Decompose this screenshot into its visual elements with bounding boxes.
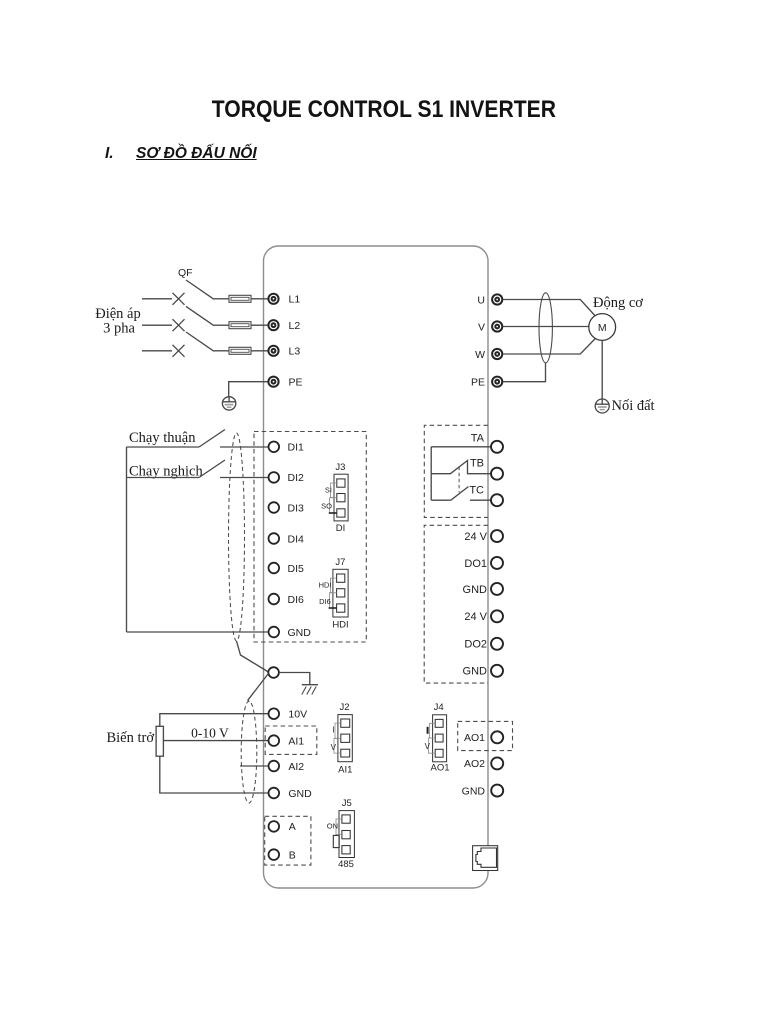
- AI cable shield ellipse dashed: [241, 701, 257, 803]
- relay mechanical link dashed: [458, 467, 460, 493]
- relay dashed box: [424, 425, 488, 517]
- wire blade to fuse L3: [214, 350, 229, 352]
- shield terminal: [268, 667, 279, 678]
- terminal DI3: [269, 502, 280, 513]
- svg-text:QF: QF: [178, 267, 193, 279]
- fuse F1: [229, 295, 251, 302]
- terminal AI1: [269, 735, 280, 746]
- svg-text:AI2: AI2: [288, 761, 304, 773]
- earth symbol left PE: [222, 397, 235, 410]
- wire U to motor: [503, 300, 595, 317]
- svg-text:J3: J3: [335, 462, 345, 473]
- svg-text:PE: PE: [289, 377, 303, 389]
- chassis ground symbol: [302, 685, 318, 695]
- svg-text:AO2: AO2: [464, 758, 485, 770]
- svg-text:AI1: AI1: [338, 765, 352, 776]
- svg-text:24 V: 24 V: [464, 611, 487, 623]
- svg-text:Động cơ: Động cơ: [593, 295, 643, 311]
- terminal PE right: [492, 377, 502, 387]
- wire to DI1: [220, 446, 269, 448]
- svg-text:DI6: DI6: [288, 594, 305, 606]
- breaker pole X L3: [173, 345, 185, 357]
- breaker pole X L2: [173, 319, 185, 331]
- digital output dashed box: [424, 525, 488, 683]
- wire pot top to 10V: [160, 714, 269, 727]
- svg-text:Chạy thuận: Chạy thuận: [129, 430, 196, 446]
- wire motor to earth: [601, 340, 603, 399]
- svg-text:DI: DI: [336, 523, 346, 534]
- svg-text:J2: J2: [339, 702, 349, 713]
- terminal V: [492, 321, 502, 331]
- svg-text:GND: GND: [288, 627, 312, 639]
- svg-text:485: 485: [338, 859, 354, 870]
- svg-text:J4: J4: [434, 702, 444, 713]
- jumper J4 label I: [427, 727, 429, 734]
- svg-text:DI1: DI1: [288, 442, 305, 454]
- shield drain wire DI cable: [237, 641, 269, 672]
- motor M: [589, 314, 616, 341]
- terminal 24V upper: [491, 530, 503, 542]
- left common bus wire: [126, 447, 128, 632]
- terminal PE left: [268, 377, 278, 387]
- terminal GND ao: [491, 785, 503, 797]
- wire PE to cable shield: [503, 363, 546, 382]
- wire shield terminal to chassis ground: [279, 673, 310, 685]
- wire fuse to L2 terminal: [251, 324, 268, 326]
- svg-text:HDI: HDI: [319, 581, 332, 590]
- terminal L1: [268, 294, 278, 304]
- terminal GND digital: [269, 627, 280, 638]
- svg-text:24 V: 24 V: [464, 531, 487, 543]
- svg-text:DI4: DI4: [288, 533, 305, 545]
- title: [53, 95, 715, 124]
- svg-text:PE: PE: [471, 377, 485, 389]
- svg-text:DI6: DI6: [319, 597, 331, 606]
- wire V to motor: [503, 326, 589, 328]
- terminal DO1: [491, 557, 503, 569]
- svg-text:L3: L3: [289, 346, 301, 358]
- svg-text:L1: L1: [289, 294, 301, 306]
- svg-text:GND: GND: [288, 788, 312, 800]
- terminal DI4: [269, 533, 280, 544]
- jumper J7 block: [329, 569, 349, 617]
- svg-text:J5: J5: [342, 798, 352, 809]
- shield wire to AI cable: [248, 674, 268, 703]
- wire blade to fuse L1: [214, 298, 229, 300]
- terminal L3: [268, 346, 278, 356]
- phase L3 input wire: [142, 350, 172, 352]
- svg-text:TA: TA: [471, 433, 485, 445]
- terminal B: [269, 849, 280, 860]
- DI dashed group box: [254, 432, 366, 643]
- relay TC contact: [431, 499, 451, 501]
- potentiometer body: [156, 726, 163, 756]
- terminal DO2: [491, 638, 503, 650]
- RJ45 connector: [473, 846, 498, 871]
- svg-text:DI5: DI5: [288, 563, 305, 575]
- DI cable shield ellipse dashed: [229, 433, 245, 641]
- terminal GND analog: [269, 788, 280, 799]
- svg-text:DO2: DO2: [464, 639, 487, 651]
- terminal DI1: [269, 442, 280, 453]
- terminal AI2: [269, 761, 280, 772]
- jumper J3 block: [329, 474, 348, 521]
- motor cable shield ellipse: [539, 293, 552, 363]
- section heading text: [136, 145, 257, 163]
- svg-text:L2: L2: [289, 320, 301, 332]
- terminal TA: [491, 441, 503, 453]
- wire pot wiper to AI1: [163, 740, 268, 742]
- terminal GND do1: [491, 583, 503, 595]
- svg-text:J7: J7: [335, 557, 345, 568]
- AI1 dashed box: [265, 726, 317, 754]
- phase L1 input wire: [142, 298, 172, 300]
- wire fuse to L3 terminal: [251, 350, 268, 352]
- DI2 switch blade: [199, 460, 225, 478]
- svg-text:M: M: [598, 322, 607, 334]
- breaker blade L1: [186, 280, 214, 299]
- terminal 24V lower: [491, 610, 503, 622]
- svg-text:TC: TC: [469, 485, 484, 497]
- wire to DI2: [220, 477, 269, 479]
- inverter main box: [264, 246, 489, 888]
- svg-text:B: B: [289, 849, 296, 861]
- terminal AO1: [491, 731, 503, 743]
- breaker pole X L1: [173, 293, 185, 305]
- jumper J4 block: [429, 715, 447, 762]
- svg-text:GND: GND: [463, 666, 488, 678]
- section heading I.: [105, 145, 114, 163]
- wire blade to fuse L2: [214, 324, 229, 326]
- svg-text:Nối đất: Nối đất: [612, 398, 655, 414]
- wire pot bottom to GND: [160, 756, 269, 793]
- svg-text:GND: GND: [463, 584, 488, 596]
- svg-text:U: U: [477, 294, 485, 306]
- AO1 dashed box: [458, 721, 513, 750]
- wire PE terminal to earth: [229, 382, 268, 397]
- svg-text:GND: GND: [462, 785, 486, 797]
- terminal GND do2: [491, 665, 503, 677]
- wire W to motor: [503, 339, 595, 355]
- svg-text:ON: ON: [327, 821, 338, 830]
- earth symbol motor: [595, 399, 609, 413]
- terminal DI5: [269, 563, 280, 574]
- svg-text:SI: SI: [325, 486, 332, 495]
- DI1 switch wire left: [127, 446, 200, 448]
- breaker blade L3: [186, 332, 214, 351]
- phase L2 input wire: [142, 324, 172, 326]
- fuse F3: [229, 347, 251, 354]
- svg-text:HDI: HDI: [332, 620, 348, 631]
- svg-text:V: V: [425, 742, 431, 751]
- breaker blade L2: [186, 306, 214, 325]
- terminal AO2: [491, 757, 503, 769]
- svg-text:V: V: [478, 321, 485, 333]
- terminal DI6: [269, 594, 280, 605]
- svg-text:V: V: [331, 743, 337, 752]
- terminal W: [492, 349, 502, 359]
- terminal TB: [491, 468, 503, 480]
- wire bus to GND: [127, 631, 269, 633]
- svg-text:Biến trở: Biến trở: [106, 730, 154, 746]
- terminal DI2: [269, 472, 280, 483]
- svg-text:10V: 10V: [288, 709, 307, 721]
- svg-text:SO: SO: [321, 502, 332, 511]
- RS485 dashed box: [265, 816, 311, 865]
- svg-text:W: W: [475, 349, 485, 361]
- svg-text:TB: TB: [470, 458, 484, 470]
- relay left bus: [430, 447, 432, 500]
- jumper J5 block: [333, 811, 354, 858]
- fuse F2: [229, 322, 251, 329]
- svg-text:AI1: AI1: [288, 735, 304, 747]
- svg-text:0-10 V: 0-10 V: [191, 726, 229, 741]
- svg-text:I: I: [332, 726, 334, 735]
- jumper J2 block: [334, 715, 352, 762]
- AI2 stub wire: [240, 765, 269, 767]
- DI2 switch wire left: [127, 477, 200, 479]
- relay TA wire: [431, 446, 491, 448]
- terminal A: [269, 821, 280, 832]
- svg-text:A: A: [289, 821, 296, 833]
- terminal U: [492, 294, 502, 304]
- svg-text:DI3: DI3: [288, 502, 305, 514]
- svg-text:DO1: DO1: [464, 558, 487, 570]
- svg-text:DI2: DI2: [288, 472, 305, 484]
- wire fuse to L1 terminal: [251, 298, 268, 300]
- relay TB contact: [431, 461, 491, 474]
- terminal TC: [491, 494, 503, 506]
- terminal 10V: [269, 708, 280, 719]
- DI1 switch blade: [199, 430, 225, 448]
- svg-text:AO1: AO1: [430, 763, 449, 774]
- terminal L2: [268, 320, 278, 330]
- svg-text:3 pha: 3 pha: [103, 321, 135, 337]
- svg-text:AO1: AO1: [464, 732, 485, 744]
